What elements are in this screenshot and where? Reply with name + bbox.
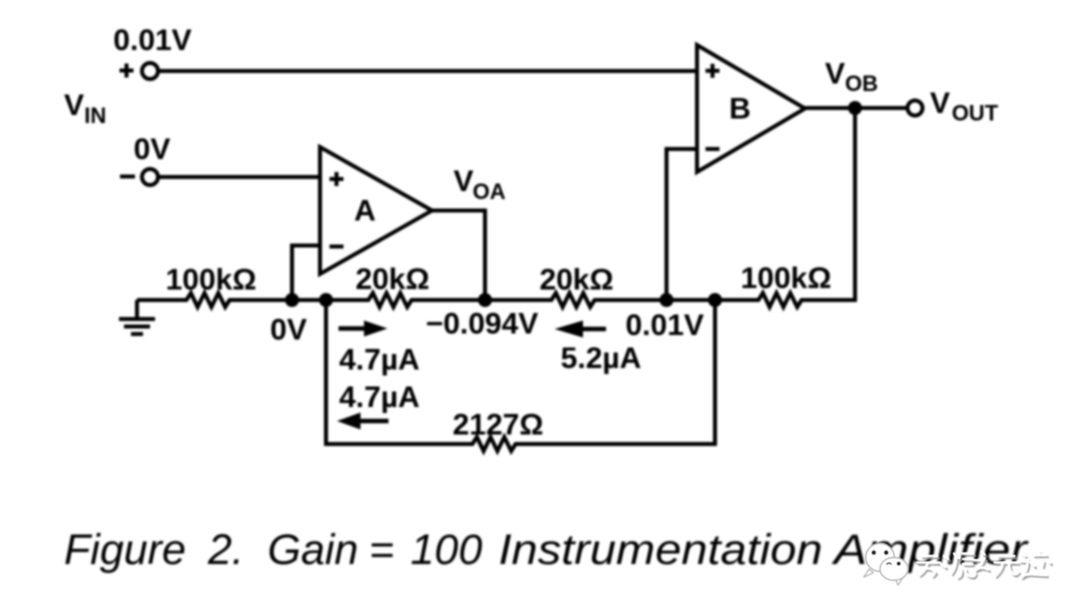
svg-text:0.01V: 0.01V	[113, 24, 191, 57]
svg-text:V: V	[64, 89, 84, 122]
svg-text:A: A	[354, 195, 376, 228]
svg-text:V: V	[454, 165, 474, 198]
svg-text:0.01V: 0.01V	[625, 309, 703, 342]
svg-text:2127Ω: 2127Ω	[453, 409, 544, 442]
svg-text:4.7µA: 4.7µA	[339, 344, 420, 377]
svg-text:IN: IN	[84, 103, 106, 128]
svg-text:100kΩ: 100kΩ	[741, 262, 832, 295]
svg-text:−0.094V: −0.094V	[426, 308, 539, 341]
svg-text:20kΩ: 20kΩ	[539, 264, 613, 297]
svg-text:B: B	[729, 92, 751, 125]
svg-text:OUT: OUT	[952, 101, 999, 126]
svg-text:4.7µA: 4.7µA	[339, 381, 420, 414]
svg-text:0V: 0V	[134, 133, 171, 166]
svg-text:100kΩ: 100kΩ	[166, 264, 257, 297]
svg-text:OA: OA	[473, 179, 506, 204]
svg-text:20kΩ: 20kΩ	[355, 263, 429, 296]
svg-text:0V: 0V	[270, 314, 307, 347]
svg-text:OB: OB	[845, 71, 878, 96]
svg-text:5.2µA: 5.2µA	[561, 342, 642, 375]
svg-text:V: V	[825, 58, 845, 91]
svg-text:V: V	[930, 87, 950, 120]
